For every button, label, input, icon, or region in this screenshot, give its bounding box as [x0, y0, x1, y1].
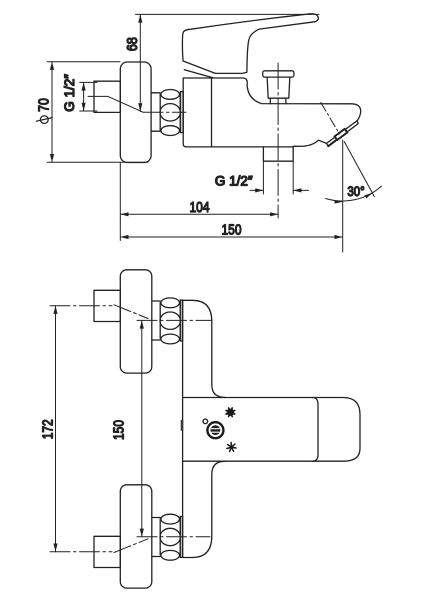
center line bottom union (front view)	[50, 537, 210, 553]
bottom wall flange (front view)	[120, 485, 152, 588]
body internal edge line	[211, 78, 213, 147]
diverter knob skirt	[270, 98, 286, 104]
svg-text:G 1/2″: G 1/2″	[62, 74, 77, 112]
left edge notch	[181, 420, 184, 431]
center line: diverter knob axis	[277, 63, 279, 218]
bottom inlet nipple (front view)	[94, 536, 120, 567]
dim 68: vertical line	[139, 14, 141, 111]
dim 68: extension line at top	[136, 13, 320, 15]
dim 150 top view: arrows	[120, 235, 128, 239]
dim phi70: arrows	[50, 62, 54, 70]
svg-text:68: 68	[123, 37, 140, 51]
top union nut (front view)	[160, 298, 180, 344]
body front-face rounded end (front view)	[312, 398, 318, 462]
svg-text:G 1/2″: G 1/2″	[215, 174, 253, 189]
center line: spout 30deg axis	[321, 103, 340, 135]
dim G1/2 bottom: arrows	[255, 188, 263, 192]
dim 104: arrows	[120, 212, 128, 216]
dim 68: arrows	[138, 14, 142, 22]
dim 104: line	[120, 163, 278, 218]
union nut ellipses (side view)	[160, 90, 180, 136]
top union band (front view)	[180, 300, 182, 341]
svg-text:70: 70	[35, 98, 51, 112]
dim phi70: extension lines	[47, 62, 148, 163]
svg-text:150: 150	[110, 420, 127, 440]
faucet body (side view)	[183, 78, 360, 147]
top inlet nipple (front view)	[94, 290, 120, 321]
diverter knob stem	[267, 77, 290, 98]
dim phi70: vertical line	[51, 62, 53, 163]
svg-text:30°: 30°	[347, 184, 364, 199]
dim G1/2 left: arrows	[82, 82, 86, 90]
top wall flange (front view)	[120, 270, 152, 373]
gear icon	[226, 408, 235, 417]
bottom union band (front view)	[180, 517, 182, 558]
bottom union nut (front view)	[160, 514, 180, 560]
top union cylinder (front view)	[152, 301, 160, 340]
svg-text:104: 104	[189, 199, 209, 216]
union cylinder (side view)	[151, 93, 160, 131]
svg-text:150: 150	[221, 221, 241, 238]
dim G1/2 bottom: extension lines	[263, 161, 293, 194]
aerator screen rect	[335, 129, 348, 140]
lever skirt cone	[184, 70, 212, 78]
lower column (front view)	[183, 461, 226, 557]
dim 150 top view: line	[120, 140, 342, 252]
dim G1/2 left: extension ticks	[80, 82, 97, 111]
snowflake icon	[227, 443, 236, 452]
aerator cap thick lower edge	[328, 141, 335, 146]
spout aerator cap outer edge	[327, 121, 359, 147]
dim G1/2 bottom: arrow lines	[250, 189, 309, 191]
dim 172: line	[55, 306, 57, 552]
dim G1/2 left: vertical line	[83, 82, 85, 111]
diverter knob cap	[263, 71, 294, 77]
logo circle	[207, 422, 223, 438]
dim 150 front view: arrows	[140, 320, 144, 328]
bottom outlet G1/2 (side view)	[263, 147, 293, 161]
small circle mark	[203, 419, 208, 424]
dim 30deg: slant line	[344, 142, 374, 197]
horizontal body slab (front view)	[183, 398, 360, 462]
bottom union cylinder (front view)	[152, 518, 160, 557]
svg-text:172: 172	[39, 419, 56, 439]
dim 30deg: arc	[326, 186, 382, 201]
inlet nipple G1/2 (side view)	[94, 81, 120, 112]
center line top union (front view)	[50, 305, 212, 321]
dim 30deg: arrows	[335, 200, 343, 203]
dim 150 front view: line	[141, 320, 143, 536]
union band ring (side view)	[180, 92, 183, 133]
dim 172: arrows	[53, 306, 57, 314]
lever handle (side view)	[182, 14, 318, 74]
upper column (front view)	[183, 300, 226, 397]
wall flange (side view)	[120, 62, 151, 163]
center line: wall axis + eccentric slant + body axis (side view)	[88, 96, 186, 112]
